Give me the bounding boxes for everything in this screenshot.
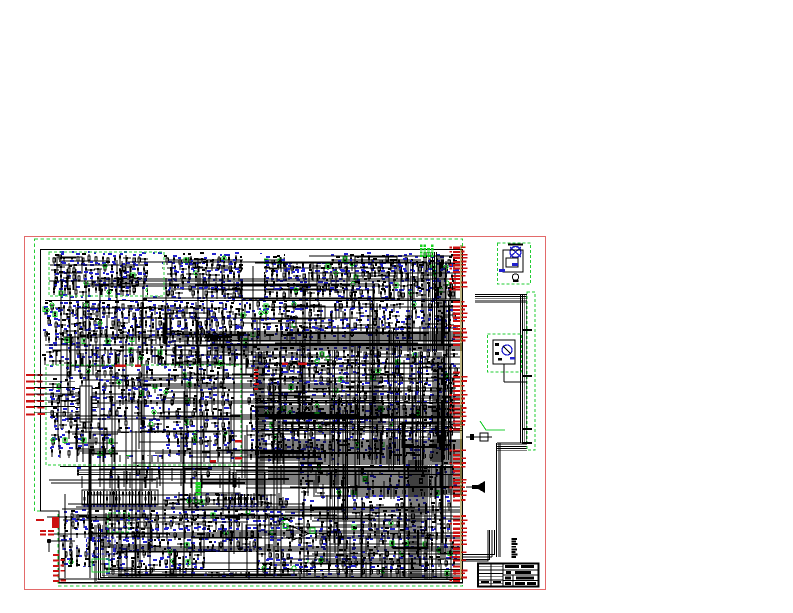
W204 (321, 421, 323, 433)
W272 (314, 557, 316, 577)
R559 (318, 450, 320, 458)
R683 (420, 511, 422, 520)
R158 (46, 309, 48, 315)
R292 (207, 359, 209, 367)
R243 (280, 324, 282, 331)
C325 (233, 354, 241, 359)
R251 (421, 321, 423, 327)
W230 (147, 515, 149, 557)
R46 (235, 255, 237, 264)
R675 (439, 502, 441, 510)
R585 (118, 521, 120, 527)
block: second band right (249, 297, 458, 344)
R420 (351, 365, 353, 374)
W112 (256, 320, 258, 344)
C669 (197, 534, 205, 541)
R402 (420, 351, 422, 358)
R479 (417, 405, 419, 412)
R524 (332, 435, 334, 442)
C298 (403, 324, 411, 328)
C459 (450, 354, 458, 357)
R372 (136, 439, 138, 447)
C684 (148, 542, 150, 550)
R592 (259, 523, 261, 531)
C449 (308, 353, 310, 362)
R515 (404, 424, 406, 433)
W171 (76, 415, 78, 462)
C38 (118, 279, 120, 288)
C333 (131, 356, 133, 367)
C839 (285, 500, 287, 508)
R500 (264, 424, 266, 429)
R448 (308, 384, 310, 391)
R58 (398, 259, 400, 268)
box outline (402, 423, 437, 447)
W234 (249, 541, 251, 558)
W255 (314, 517, 375, 519)
W25 (393, 280, 395, 299)
C49 (179, 259, 181, 268)
R157 (244, 304, 246, 313)
R303 (58, 383, 60, 392)
W161 (113, 449, 115, 462)
R461 (353, 397, 355, 403)
W91 (301, 327, 458, 329)
C583 (310, 431, 312, 441)
C42 (60, 290, 62, 298)
C310 (385, 332, 393, 337)
W322 (234, 478, 236, 488)
R283 (75, 360, 77, 367)
R109 (273, 282, 275, 289)
C215 (199, 321, 201, 330)
R785 (77, 469, 79, 476)
R60 (436, 258, 438, 268)
R523 (324, 434, 326, 442)
R708 (299, 538, 301, 545)
C156 (233, 292, 235, 302)
W174 (140, 401, 142, 425)
W63 (186, 322, 188, 344)
C619 (62, 517, 70, 524)
W123 (118, 353, 120, 366)
C359 (143, 385, 151, 390)
W307 (218, 494, 220, 507)
R711 (346, 540, 348, 549)
C371 (147, 390, 149, 399)
C108 (250, 273, 252, 280)
R602 (192, 531, 194, 538)
C258 (272, 303, 274, 311)
W139 (157, 354, 159, 366)
C640 (287, 518, 295, 523)
W45 (450, 285, 452, 299)
C182 (141, 302, 143, 310)
W194 (279, 360, 281, 464)
C595 (339, 445, 347, 451)
W168 (228, 421, 230, 453)
box outline (355, 257, 397, 276)
W22 (188, 257, 190, 282)
block: comb extension (163, 492, 289, 510)
R100 (169, 281, 171, 289)
W206 (272, 369, 274, 464)
C330 (102, 360, 104, 368)
R44 (223, 256, 225, 267)
R137 (384, 290, 386, 295)
W162 (209, 436, 211, 462)
C263 (352, 301, 354, 310)
C654 (221, 524, 223, 534)
R663 (256, 565, 258, 574)
R314 (233, 381, 235, 388)
W153 (65, 431, 220, 433)
C150 (171, 290, 173, 298)
R706 (436, 532, 438, 540)
C89 (320, 268, 328, 271)
W318 (260, 495, 262, 507)
C807 (399, 572, 407, 576)
C795 (355, 559, 357, 568)
C206 (58, 325, 66, 328)
R416 (281, 368, 283, 376)
C503 (445, 374, 447, 380)
R682 (405, 513, 407, 522)
C152 (192, 290, 194, 298)
R762 (389, 477, 391, 487)
R22 (72, 282, 74, 290)
W288 (358, 468, 360, 486)
C271 (448, 306, 456, 312)
R709 (312, 539, 314, 549)
W33 (335, 267, 337, 293)
C334 (146, 360, 148, 370)
C508 (319, 389, 327, 393)
R393 (302, 347, 304, 355)
W12 (75, 269, 77, 282)
C267 (396, 304, 404, 309)
box outline (57, 257, 82, 273)
C228 (100, 330, 102, 337)
R193 (157, 330, 159, 339)
R223 (346, 301, 348, 308)
R630 (62, 561, 64, 569)
C54 (245, 259, 247, 267)
C217 (216, 321, 218, 331)
W243 (103, 523, 105, 565)
R411 (431, 359, 433, 370)
C78 (202, 268, 210, 273)
C355 (109, 383, 117, 386)
C393 (109, 409, 111, 419)
C394 (134, 413, 142, 416)
R78 (419, 266, 421, 273)
W290 (367, 471, 369, 486)
R566 (389, 451, 391, 459)
R77 (412, 264, 414, 271)
C227 (90, 331, 98, 335)
C671 (209, 535, 217, 538)
C537 (267, 407, 275, 412)
C538 (275, 408, 283, 414)
R232 (273, 311, 275, 319)
C67 (391, 260, 393, 266)
W39 (454, 272, 456, 299)
W313 (266, 495, 268, 507)
W225 (268, 513, 270, 552)
W199 (357, 399, 359, 443)
C518 (445, 383, 447, 390)
W69 (200, 327, 202, 344)
R735 (419, 558, 421, 566)
C805 (377, 570, 379, 575)
R419 (346, 365, 348, 374)
R270 (96, 350, 98, 359)
C418 (174, 432, 176, 439)
R98 (445, 273, 447, 283)
R543 (316, 444, 318, 450)
C753 (412, 513, 414, 521)
R744 (382, 569, 384, 578)
W180 (265, 356, 330, 358)
W267 (381, 553, 383, 577)
R117 (389, 285, 391, 294)
C731 (162, 572, 170, 578)
C711 (281, 551, 283, 559)
C332 (116, 357, 118, 365)
C180 (112, 307, 120, 313)
R302 (217, 371, 219, 377)
W281 (313, 495, 437, 497)
R583 (91, 523, 93, 529)
R481 (444, 408, 446, 413)
R370 (95, 438, 97, 445)
R710 (325, 538, 327, 546)
R387 (161, 448, 163, 456)
C274 (290, 317, 298, 322)
C239 (227, 332, 235, 336)
C746 (448, 503, 450, 511)
C119 (378, 275, 386, 279)
R264 (402, 331, 404, 341)
C109 (254, 276, 262, 282)
C385 (205, 399, 207, 409)
W145 (137, 347, 139, 362)
C637 (255, 516, 263, 521)
R121 (197, 291, 199, 299)
W1 (59, 260, 109, 262)
W144 (129, 349, 131, 366)
C735 (216, 567, 218, 576)
C155 (224, 294, 232, 298)
R513 (390, 422, 392, 432)
W60 (93, 336, 203, 338)
C541 (304, 404, 306, 413)
C496 (299, 374, 301, 381)
W314 (205, 494, 207, 506)
C363 (203, 383, 211, 387)
C547 (377, 409, 385, 416)
C293 (357, 325, 365, 331)
R488 (309, 413, 311, 421)
C639 (279, 518, 287, 523)
C93 (360, 267, 368, 272)
R210 (172, 335, 174, 343)
W195 (259, 372, 261, 415)
R648 (290, 560, 292, 566)
R4 (114, 256, 116, 265)
R570 (128, 513, 130, 522)
W319 (178, 492, 180, 505)
W216 (453, 375, 455, 425)
R467 (414, 395, 416, 402)
W251 (71, 552, 73, 564)
R376 (177, 438, 179, 446)
C610 (373, 453, 381, 459)
R623 (162, 550, 164, 558)
R693 (405, 522, 407, 530)
C439 (181, 451, 189, 456)
C163 (303, 290, 305, 296)
C261 (297, 305, 305, 311)
R776 (188, 499, 190, 508)
R275 (151, 349, 153, 356)
C578 (247, 435, 255, 438)
R308 (168, 380, 170, 389)
R95 (374, 270, 376, 277)
C231 (119, 332, 127, 335)
C697 (110, 554, 118, 557)
C723 (272, 565, 280, 570)
R57 (368, 255, 370, 262)
W150 (83, 379, 177, 381)
R668 (341, 504, 343, 512)
C339 (217, 363, 225, 369)
C352 (226, 373, 228, 379)
C624 (92, 517, 100, 522)
C270 (440, 306, 448, 310)
C37 (111, 282, 113, 288)
C467 (308, 361, 316, 365)
R612 (167, 541, 169, 548)
R28 (143, 282, 145, 288)
R261 (331, 328, 333, 335)
R14 (143, 266, 145, 275)
C331 (108, 358, 110, 364)
C598 (386, 444, 394, 447)
W21 (230, 296, 264, 298)
C531 (421, 398, 423, 406)
W226 (88, 531, 90, 577)
R40 (173, 256, 175, 264)
W54 (389, 284, 391, 296)
W305 (218, 494, 220, 506)
C399 (70, 420, 72, 429)
W134 (95, 349, 97, 362)
C588 (419, 437, 427, 443)
R447 (303, 385, 305, 392)
R222 (340, 303, 342, 312)
C553 (277, 411, 279, 421)
R259 (310, 330, 312, 340)
R49 (265, 259, 267, 264)
W32 (407, 284, 409, 299)
R475 (362, 405, 364, 412)
W208 (411, 374, 413, 443)
R577 (220, 512, 222, 519)
W90 (251, 318, 310, 320)
C679 (101, 541, 103, 550)
C400 (73, 425, 81, 429)
C548 (389, 410, 397, 415)
C798 (438, 559, 440, 567)
R364 (202, 429, 204, 438)
W293 (390, 484, 392, 499)
R625 (189, 551, 191, 560)
R686 (307, 522, 309, 530)
W28 (388, 271, 390, 299)
R527 (386, 432, 388, 439)
C768 (407, 531, 409, 540)
W331 (109, 472, 111, 488)
R627 (218, 552, 220, 560)
R530 (409, 433, 411, 441)
R347 (206, 411, 208, 422)
R130 (329, 289, 331, 297)
R366 (58, 438, 60, 444)
R646 (250, 559, 252, 568)
R129 (322, 289, 324, 297)
R667 (310, 505, 312, 513)
C99 (429, 267, 437, 272)
C96 (391, 266, 399, 271)
R763 (398, 479, 400, 487)
C370 (140, 390, 142, 397)
C577 (451, 425, 459, 428)
R653 (98, 570, 100, 577)
R696 (447, 523, 449, 532)
R342 (124, 411, 126, 420)
C474 (361, 361, 369, 364)
C345 (116, 372, 118, 381)
W229 (203, 512, 205, 547)
C689 (220, 541, 222, 549)
C666 (142, 531, 144, 539)
R8 (152, 256, 154, 263)
C549 (403, 405, 405, 412)
R12 (119, 268, 121, 276)
R240 (423, 313, 425, 322)
W256 (334, 524, 409, 526)
R322 (165, 391, 167, 397)
C831 (180, 499, 188, 503)
W233 (169, 553, 171, 577)
R53 (338, 260, 340, 265)
R149 (154, 305, 156, 315)
C590 (445, 430, 447, 441)
C113 (317, 275, 319, 281)
W124 (160, 347, 162, 363)
C121 (406, 273, 408, 281)
W158 (217, 371, 219, 450)
C705 (220, 555, 228, 559)
C826 (427, 494, 435, 498)
R63 (188, 264, 190, 271)
C609 (368, 451, 370, 459)
R452 (389, 386, 391, 393)
W27 (316, 259, 318, 291)
C687 (192, 543, 194, 550)
